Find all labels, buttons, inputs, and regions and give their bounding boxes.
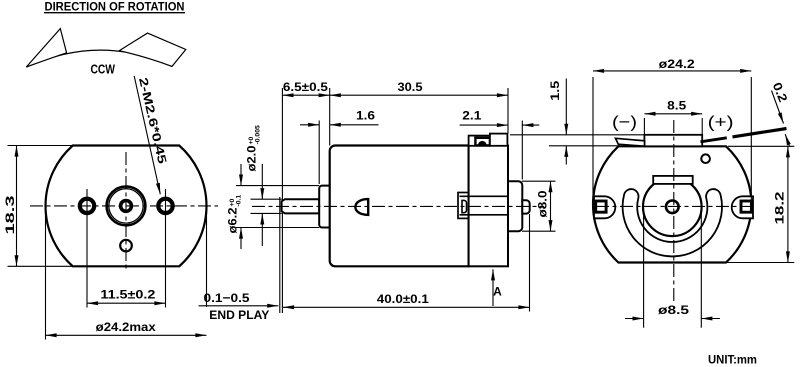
section arrow A bbox=[492, 269, 494, 306]
svg-text:2.1: 2.1 bbox=[462, 109, 481, 123]
end play text END PLAY bbox=[209, 308, 269, 322]
title underline bbox=[44, 12, 185, 14]
svg-text:1.5: 1.5 bbox=[548, 81, 562, 101]
rear flange bbox=[508, 181, 522, 231]
svg-text:ø6.2: ø6.2 bbox=[226, 207, 240, 233]
extension o8.5 right bbox=[700, 213, 702, 328]
svg-text:ø2.0: ø2.0 bbox=[245, 145, 259, 171]
dimension o6.2 upper arrow bbox=[240, 164, 242, 186]
dimension 8.5 text bbox=[667, 98, 686, 112]
horseshoe slot bbox=[623, 189, 722, 256]
extension cap right top bbox=[507, 88, 509, 133]
dimension 1.5 text bbox=[548, 81, 562, 101]
brush holder tab bbox=[458, 193, 469, 219]
svg-text:-0.005: -0.005 bbox=[255, 125, 262, 144]
extension boss left bbox=[318, 121, 320, 185]
dimension 18.3 text bbox=[3, 195, 17, 234]
svg-text:CCW: CCW bbox=[90, 62, 115, 77]
rotation arrow tail (right quad) bbox=[119, 33, 186, 66]
dimension o6.2 text bbox=[226, 195, 243, 234]
rear pin bbox=[522, 200, 529, 213]
extension o8.5 left bbox=[643, 213, 645, 328]
extension 18.2 top bbox=[728, 145, 794, 147]
cap top brush detail bbox=[475, 138, 490, 146]
svg-text:(−): (−) bbox=[612, 113, 637, 132]
svg-text:UNIT:mm: UNIT:mm bbox=[708, 353, 757, 367]
dimension o24.2max text bbox=[96, 320, 156, 334]
brush inner detail bbox=[462, 200, 467, 212]
brush tube bottom line bbox=[460, 214, 509, 216]
dimension 1.6 left arrow bbox=[300, 124, 319, 126]
shaft boss bbox=[319, 186, 330, 228]
title DIRECTION OF ROTATION bbox=[45, 0, 185, 13]
dimension 1.6 right arrow bbox=[330, 124, 379, 126]
dimension 18.2 text bbox=[773, 191, 787, 224]
extension 1.5 upper bbox=[510, 134, 644, 136]
extension line left hole bbox=[86, 189, 88, 308]
dimension o8.5 right arrow bbox=[701, 318, 720, 320]
end cap bbox=[469, 146, 508, 267]
svg-text:1.6: 1.6 bbox=[356, 108, 375, 122]
dimension o2.0 upper arrow bbox=[261, 164, 263, 199]
left notch inner square bbox=[596, 201, 606, 212]
cap top step 1 bbox=[469, 136, 490, 146]
middle view centerline bbox=[252, 205, 544, 207]
extension pin right bottom bbox=[529, 214, 531, 312]
extension line body right extreme bbox=[206, 210, 208, 307]
leader 2-M2.6x0.45 bbox=[134, 76, 160, 194]
dimension o24.2max line bbox=[46, 334, 207, 336]
extension line body left extreme bbox=[45, 210, 47, 340]
end-play extension double line A bbox=[279, 197, 281, 313]
svg-text:ø8.0: ø8.0 bbox=[536, 190, 550, 217]
shaft boss inner ring bbox=[109, 189, 143, 223]
dimension 40.0 text bbox=[377, 292, 429, 306]
dimension o6.2 lower arrow bbox=[240, 228, 242, 250]
dimension o8.0 text bbox=[536, 190, 550, 217]
left side notch bbox=[594, 196, 615, 218]
svg-text:ø24.2: ø24.2 bbox=[659, 57, 695, 71]
svg-text:A: A bbox=[493, 285, 502, 299]
dimension 0.2 lower arrow bbox=[785, 134, 789, 146]
extension boss top left bbox=[236, 185, 319, 187]
svg-text:-0.1: -0.1 bbox=[236, 195, 243, 207]
brush cover tab bbox=[644, 135, 702, 147]
dimension o2.0 lower arrow bbox=[261, 213, 263, 246]
dimension o24.2 text bbox=[659, 57, 695, 71]
dimension 2.1 left arrow bbox=[460, 124, 508, 126]
extension shaft top left bbox=[251, 198, 282, 200]
dimension 2.1 right arrow bbox=[522, 124, 539, 126]
svg-text:ø8.5: ø8.5 bbox=[658, 303, 689, 317]
svg-text:(+): (+) bbox=[708, 113, 734, 132]
dimension 18.3 extension bottom bbox=[8, 265, 73, 267]
dimension o8.0 line bbox=[550, 181, 552, 231]
svg-text:11.5±0.2: 11.5±0.2 bbox=[100, 288, 155, 302]
cap top brush dome bbox=[478, 141, 487, 145]
shaft boss outer circle bbox=[107, 187, 146, 226]
dimension o2.0 text bbox=[245, 125, 262, 171]
rear bearing circle bbox=[643, 178, 702, 237]
svg-text:30.5: 30.5 bbox=[398, 80, 423, 94]
extension 1.5 lower bbox=[549, 145, 620, 147]
dimension 18.3 extension top bbox=[8, 145, 73, 147]
extension flange top right bbox=[522, 180, 556, 182]
dimension 6.5 text bbox=[283, 80, 328, 94]
extension flange bottom right bbox=[522, 230, 556, 232]
svg-text:ø24.2max: ø24.2max bbox=[96, 320, 156, 334]
dimension 30.5 line bbox=[330, 94, 508, 96]
rear shaft hole bbox=[666, 201, 679, 214]
dimension 40.0 line bbox=[283, 306, 530, 308]
svg-text:18.3: 18.3 bbox=[3, 195, 17, 234]
vent hole bbox=[701, 154, 710, 163]
dimension 1.5 upper arrow bbox=[565, 79, 567, 135]
unit note bbox=[708, 353, 757, 367]
right view horizontal centerline bbox=[596, 205, 750, 207]
end play text 0.1-0.5 bbox=[204, 291, 250, 305]
svg-text:END PLAY: END PLAY bbox=[209, 308, 269, 322]
dimension o8.5 left arrow bbox=[625, 318, 644, 320]
dimension 1.6 text bbox=[356, 108, 375, 122]
rotation arrow arc bbox=[26, 50, 172, 67]
dimension 0.2 upper arrow bbox=[772, 91, 784, 124]
positive terminal segment 2 bbox=[733, 129, 787, 137]
svg-text:18.2: 18.2 bbox=[773, 191, 787, 224]
positive terminal segment 1 bbox=[701, 138, 727, 142]
svg-text:40.0±0.1: 40.0±0.1 bbox=[377, 292, 429, 306]
dimension 18.3 line bbox=[16, 146, 18, 267]
dimension 2.1 text bbox=[462, 109, 481, 123]
right notch inner square bbox=[741, 201, 751, 212]
negative terminal bbox=[616, 138, 645, 146]
end-play / 6.5 extension line B bbox=[281, 88, 283, 313]
extension o24.2 right bbox=[750, 77, 752, 204]
motor body (side) bbox=[330, 146, 469, 267]
right view motor body outline bbox=[593, 146, 751, 262]
left view motor body outline bbox=[46, 146, 207, 267]
rotation arrow head (left triangle) bbox=[26, 29, 66, 67]
left view horizontal centerline bbox=[30, 205, 218, 207]
magnet clip (bullet) bbox=[355, 199, 368, 215]
end play leader bbox=[199, 305, 279, 307]
dimension o8.5 text bbox=[658, 303, 689, 317]
label positive bbox=[708, 113, 734, 132]
dimension 18.2 line bbox=[787, 146, 789, 262]
right view vertical centerline bbox=[673, 120, 675, 302]
extension 18.2 bottom bbox=[718, 262, 794, 264]
svg-text:DIRECTION OF ROTATION: DIRECTION OF ROTATION bbox=[45, 0, 185, 13]
section label A bbox=[493, 285, 502, 299]
label CCW bbox=[90, 62, 115, 77]
bearing top bar bbox=[653, 176, 693, 184]
extension boss bottom left bbox=[236, 227, 319, 229]
cap top step 2 bbox=[490, 134, 508, 146]
extension body left top bbox=[329, 88, 331, 146]
dimension 0.2 text bbox=[770, 80, 791, 104]
dimension 30.5 text bbox=[398, 80, 423, 94]
brush tube top line bbox=[460, 195, 509, 197]
dimension o24.2 line bbox=[593, 70, 751, 72]
right side notch bbox=[732, 196, 753, 218]
label negative bbox=[612, 113, 637, 132]
svg-text:8.5: 8.5 bbox=[667, 98, 686, 112]
dimension 11.5 line bbox=[87, 302, 166, 304]
left mounting hole bbox=[80, 199, 94, 213]
right mounting hole bbox=[158, 199, 172, 213]
extension 8.5 right bbox=[701, 118, 703, 135]
extension flange right top bbox=[521, 121, 523, 180]
svg-text:0.1−0.5: 0.1−0.5 bbox=[204, 291, 250, 305]
dimension 6.5 line bbox=[282, 94, 329, 96]
dimension 8.5 line bbox=[644, 113, 702, 115]
dimension 11.5 text bbox=[100, 288, 155, 302]
extension shaft bottom left bbox=[251, 212, 282, 214]
bottom small hole bbox=[120, 240, 132, 252]
left view vertical centerline bbox=[125, 152, 127, 272]
dimension 1.5 lower arrow bbox=[565, 146, 567, 165]
shaft hole bbox=[121, 201, 132, 212]
extension line right hole bbox=[165, 189, 167, 308]
svg-text:6.5±0.5: 6.5±0.5 bbox=[283, 80, 328, 94]
extension o24.2 left bbox=[592, 77, 594, 204]
extension 8.5 left bbox=[643, 118, 645, 135]
shaft bbox=[282, 199, 320, 213]
